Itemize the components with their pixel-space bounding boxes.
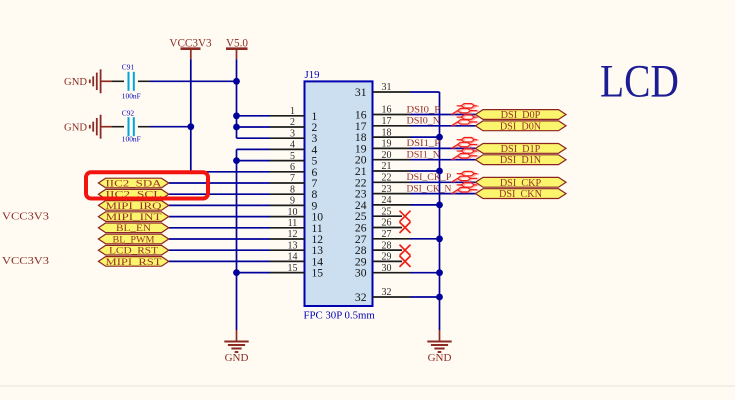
differential pair marker at pin 16 bbox=[453, 104, 479, 115]
svg-text:VCC3V3: VCC3V3 bbox=[2, 256, 49, 267]
svg-text:19: 19 bbox=[382, 139, 392, 150]
pin 22 with number bbox=[373, 181, 411, 183]
svg-text:31: 31 bbox=[355, 86, 367, 99]
svg-text:12: 12 bbox=[288, 229, 298, 240]
svg-text:18: 18 bbox=[382, 127, 392, 138]
svg-text:DSI_D1P: DSI_D1P bbox=[501, 144, 541, 155]
svg-text:17: 17 bbox=[382, 116, 392, 127]
port flag MIPI_INT bbox=[98, 212, 168, 222]
wire pin 32 to GND bbox=[410, 296, 440, 298]
svg-text:DSI_CKN: DSI_CKN bbox=[499, 189, 543, 200]
pin 25 with number bbox=[373, 215, 403, 217]
wire V5.0 to pin 2 bbox=[237, 126, 271, 128]
differential pair marker at pin 20 bbox=[453, 149, 479, 160]
svg-text:6: 6 bbox=[290, 162, 295, 173]
svg-text:GND: GND bbox=[64, 77, 87, 88]
wire pin 23 to port bbox=[410, 193, 476, 195]
no-connect X at pin 28 bbox=[400, 245, 411, 256]
pin 21 with number bbox=[373, 170, 411, 172]
wire MIPI_RST to pin 14 bbox=[169, 260, 270, 262]
svg-text:100nF: 100nF bbox=[122, 92, 141, 101]
pin 32 with number bbox=[373, 296, 411, 298]
differential pair marker at pin 19 bbox=[453, 138, 479, 149]
pin 3 with number bbox=[270, 137, 305, 139]
wire C91 to V5.0 bbox=[150, 80, 237, 82]
svg-text:DSI0_N: DSI0_N bbox=[407, 117, 441, 127]
wire V5.0 to pin 3 bbox=[237, 137, 271, 139]
wire pin 27 to GND bbox=[410, 238, 440, 240]
pin 27 with number bbox=[373, 238, 411, 240]
svg-text:BL_EN: BL_EN bbox=[116, 223, 151, 234]
svg-text:23: 23 bbox=[382, 184, 392, 195]
junction pin5/GND bbox=[233, 157, 240, 164]
pin 7 with number bbox=[270, 182, 305, 184]
svg-text:DSI_D0P: DSI_D0P bbox=[501, 110, 541, 121]
pin 5 with number bbox=[270, 160, 305, 162]
port flag BL_PWM bbox=[98, 234, 168, 244]
svg-text:MIPI_IRQ: MIPI_IRQ bbox=[106, 201, 162, 212]
wire GND to pin 15 bbox=[237, 272, 271, 274]
port flag DSI_D1N bbox=[476, 155, 567, 165]
pin 1 with number bbox=[270, 115, 305, 117]
title text LCD bbox=[600, 55, 679, 107]
svg-text:9: 9 bbox=[290, 196, 295, 207]
pin 24 with number bbox=[373, 204, 411, 206]
port flag DSI_D0P bbox=[476, 110, 567, 120]
pin 4 with number bbox=[270, 148, 305, 150]
svg-text:31: 31 bbox=[382, 82, 392, 93]
svg-text:GND: GND bbox=[64, 122, 87, 133]
svg-text:20: 20 bbox=[382, 150, 392, 161]
wire V5.0 to pin 1 bbox=[237, 115, 271, 117]
no-connect X at pin 25 bbox=[400, 211, 411, 222]
svg-text:28: 28 bbox=[382, 240, 392, 251]
svg-text:10: 10 bbox=[288, 207, 298, 218]
svg-text:32: 32 bbox=[382, 287, 392, 298]
svg-text:C92: C92 bbox=[122, 109, 135, 118]
pin 19 with number bbox=[373, 147, 411, 149]
svg-text:GND: GND bbox=[428, 352, 452, 364]
svg-text:22: 22 bbox=[382, 173, 392, 184]
port flag DSI_CKP bbox=[476, 177, 567, 187]
port flag LCD_RST bbox=[98, 245, 168, 255]
svg-text:LCD_RST: LCD_RST bbox=[109, 246, 158, 257]
port flag DSI_CKN bbox=[476, 189, 567, 199]
wire VCC3V3 vertical bbox=[190, 59, 192, 172]
wire VCC3V3 to pin 6 bbox=[191, 171, 270, 173]
svg-text:BL_PWM: BL_PWM bbox=[113, 234, 155, 245]
port flag MIPI_RST bbox=[98, 257, 168, 267]
svg-text:MIPI_RST: MIPI_RST bbox=[106, 257, 162, 268]
junction pin30/GND bbox=[436, 269, 443, 276]
wire GND vertical left bbox=[236, 149, 238, 330]
wire V5.0 vertical bbox=[236, 59, 238, 138]
wire pin 20 to port bbox=[410, 159, 476, 161]
capacitor C91 bbox=[112, 80, 124, 82]
sheet edge line bbox=[0, 385, 735, 387]
wire pin 21 to GND bbox=[410, 170, 440, 172]
pin 2 with number bbox=[270, 126, 305, 128]
svg-text:3: 3 bbox=[290, 128, 295, 139]
junction pin2/V5.0 bbox=[233, 124, 240, 131]
junction C92/VCC3V3 bbox=[187, 123, 194, 130]
pin 11 with number bbox=[270, 227, 305, 229]
pin 9 with number bbox=[270, 204, 305, 206]
ground GND right bbox=[439, 330, 441, 341]
connector J19 body bbox=[305, 81, 373, 306]
pin 31 with number bbox=[373, 91, 411, 93]
wire IIC2_SCL to pin 8 bbox=[169, 193, 270, 195]
pin 29 with number bbox=[373, 260, 403, 262]
power port VCC3V3 stem bbox=[190, 49, 192, 60]
junction pin1/V5.0 bbox=[233, 112, 240, 119]
svg-text:14: 14 bbox=[288, 252, 298, 263]
junction pin24/GND bbox=[436, 202, 443, 209]
svg-text:MIPI_INT: MIPI_INT bbox=[106, 212, 162, 223]
wire pin 17 to port bbox=[410, 125, 476, 127]
wire C92 to VCC3V3 bbox=[150, 126, 191, 128]
junction pin32/GND bbox=[436, 294, 443, 301]
pin 10 with number bbox=[270, 216, 305, 218]
svg-text:DSI_CKP: DSI_CKP bbox=[500, 178, 542, 189]
pin 17 with number bbox=[373, 125, 411, 127]
svg-text:DSI1_N: DSI1_N bbox=[407, 151, 441, 161]
svg-text:7: 7 bbox=[290, 173, 295, 184]
junction pin21/GND bbox=[436, 168, 443, 175]
wire MIPI_IRQ to pin 9 bbox=[169, 204, 270, 206]
svg-text:21: 21 bbox=[382, 161, 392, 172]
svg-text:J19: J19 bbox=[305, 69, 320, 81]
wire pin 31 to GND vertical right bbox=[410, 91, 440, 93]
svg-text:26: 26 bbox=[382, 218, 392, 229]
pin 8 with number bbox=[270, 193, 305, 195]
capacitor C92 bbox=[112, 126, 124, 128]
port flag MIPI_IRQ bbox=[98, 201, 168, 211]
pin 28 with number bbox=[373, 249, 403, 251]
junction pin15/GND bbox=[233, 269, 240, 276]
svg-text:100nF: 100nF bbox=[122, 135, 141, 144]
svg-text:13: 13 bbox=[288, 240, 298, 251]
pin 13 with number bbox=[270, 249, 305, 251]
svg-text:11: 11 bbox=[288, 218, 298, 229]
wire pin 22 to port bbox=[410, 181, 476, 183]
svg-text:15: 15 bbox=[312, 267, 324, 280]
wire BL_EN to pin 11 bbox=[169, 227, 270, 229]
svg-text:IIC2_SDA: IIC2_SDA bbox=[106, 178, 163, 189]
pin 20 with number bbox=[373, 159, 411, 161]
pin 12 with number bbox=[270, 238, 305, 240]
wire pin 19 to port bbox=[410, 147, 476, 149]
svg-text:16: 16 bbox=[382, 105, 392, 116]
highlight rectangle around IIC2 ports bbox=[86, 172, 208, 198]
svg-text:2: 2 bbox=[290, 117, 295, 128]
wire pin 18 to GND bbox=[410, 136, 440, 138]
pin 6 with number bbox=[270, 171, 305, 173]
svg-text:DSI1_P: DSI1_P bbox=[407, 139, 441, 149]
wire GND vertical right bbox=[439, 92, 441, 330]
junction C91/V5.0 bbox=[233, 78, 240, 85]
svg-text:DSI_D1N: DSI_D1N bbox=[500, 155, 542, 166]
svg-text:GND: GND bbox=[225, 352, 249, 364]
svg-text:5: 5 bbox=[290, 151, 295, 162]
wire LCD_RST to pin 13 bbox=[169, 249, 270, 251]
port flag DSI_D1P bbox=[476, 144, 567, 154]
wire pin 30 to GND bbox=[410, 272, 440, 274]
svg-text:25: 25 bbox=[382, 206, 392, 217]
svg-text:LCD: LCD bbox=[600, 55, 679, 107]
svg-text:4: 4 bbox=[290, 140, 295, 151]
no-connect X at pin 26 bbox=[400, 222, 411, 233]
power port V5.0 bar bbox=[226, 47, 248, 50]
svg-text:DSI_D0N: DSI_D0N bbox=[500, 121, 542, 132]
power port VCC3V3 bar bbox=[181, 47, 201, 50]
svg-text:30: 30 bbox=[355, 267, 367, 280]
power port V5.0 stem bbox=[236, 49, 238, 60]
wire pin 24 to GND bbox=[410, 204, 440, 206]
pin 23 with number bbox=[373, 193, 411, 195]
junction pin27/GND bbox=[436, 235, 443, 242]
port flag IIC2_SDA bbox=[98, 178, 168, 188]
svg-text:8: 8 bbox=[290, 184, 295, 195]
svg-text:VCC3V3: VCC3V3 bbox=[2, 211, 49, 222]
svg-text:15: 15 bbox=[288, 263, 298, 274]
junction pin18/GND bbox=[436, 134, 443, 141]
pin 14 with number bbox=[270, 260, 305, 262]
pin 18 with number bbox=[373, 136, 411, 138]
svg-text:30: 30 bbox=[382, 263, 392, 274]
port flag IIC2_SCL bbox=[98, 189, 168, 199]
svg-text:29: 29 bbox=[382, 252, 392, 263]
no-connect X at pin 29 bbox=[400, 256, 411, 267]
pin 30 with number bbox=[373, 272, 411, 274]
differential pair marker at pin 17 bbox=[453, 115, 479, 126]
svg-text:DSI0_P: DSI0_P bbox=[407, 105, 441, 115]
differential pair marker at pin 23 bbox=[453, 183, 479, 194]
pin 26 with number bbox=[373, 227, 403, 229]
wire GND to pin 4 bbox=[237, 148, 271, 150]
port flag BL_EN bbox=[98, 223, 168, 233]
pin 16 with number bbox=[373, 114, 411, 116]
pin 15 with number bbox=[270, 272, 305, 274]
svg-text:DSI_CK_P: DSI_CK_P bbox=[407, 173, 452, 183]
svg-text:32: 32 bbox=[355, 291, 367, 304]
port flag DSI_D0N bbox=[476, 121, 567, 131]
svg-text:FPC 30P 0.5mm: FPC 30P 0.5mm bbox=[304, 310, 376, 322]
wire MIPI_INT to pin 10 bbox=[169, 216, 270, 218]
svg-text:1: 1 bbox=[290, 106, 295, 117]
ground GND left bbox=[236, 330, 238, 341]
svg-text:27: 27 bbox=[382, 229, 392, 240]
wire IIC2_SDA to pin 7 bbox=[169, 182, 270, 184]
wire GND to pin 5 bbox=[237, 160, 271, 162]
wire pin 16 to port bbox=[410, 114, 476, 116]
svg-text:C91: C91 bbox=[122, 63, 135, 72]
svg-text:24: 24 bbox=[382, 195, 392, 206]
differential pair marker at pin 22 bbox=[453, 172, 479, 183]
svg-text:DSI_CK_N: DSI_CK_N bbox=[407, 184, 452, 194]
wire BL_PWM to pin 12 bbox=[169, 238, 270, 240]
